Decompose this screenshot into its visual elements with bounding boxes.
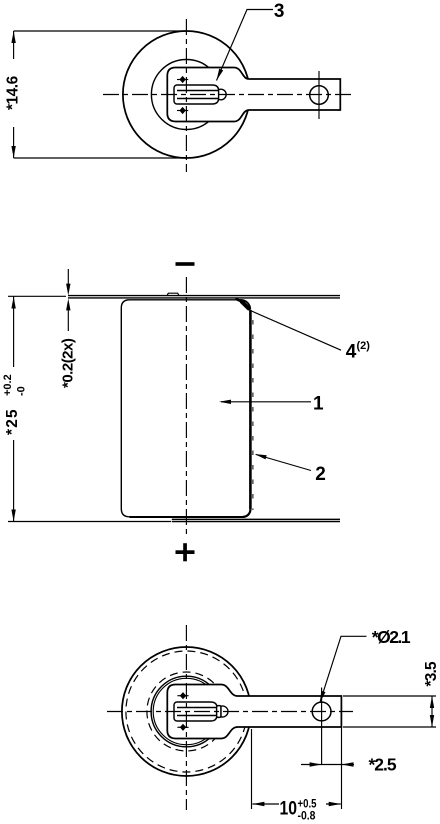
- tab tongue: [177, 91, 220, 99]
- weld nub upper: [177, 692, 188, 699]
- tab slot: [174, 702, 217, 721]
- svg-text:*0.2(2x): *0.2(2x): [60, 338, 77, 388]
- svg-text:*2.5: *2.5: [369, 755, 397, 775]
- top strip weld bump: [167, 293, 179, 295]
- dim 25 text: [2, 374, 28, 435]
- minus terminal: [176, 262, 195, 266]
- leader 1: [221, 401, 311, 403]
- plus terminal: [176, 550, 195, 554]
- top tab strip: [68, 296, 340, 298]
- tab outline (part 3): [167, 68, 340, 122]
- body bottom edge: [130, 516, 244, 518]
- horizontal centerline: [103, 94, 353, 96]
- vertical centerline: [185, 19, 187, 172]
- body outline left/top/bottom-left (part 1): [121, 300, 241, 517]
- sleeve hidden dashed line: [252, 320, 254, 510]
- tab tongue: [177, 708, 217, 716]
- dim 0.2 lower line + arrow: [67, 304, 69, 332]
- weld nub upper: [177, 76, 188, 83]
- svg-text:3: 3: [274, 1, 285, 22]
- tongue tip collar: [217, 706, 221, 718]
- weld nub lower: [177, 724, 188, 731]
- svg-text:*25: *25: [4, 408, 21, 435]
- dim 2.5 line + arrows: [301, 764, 354, 766]
- svg-text:(2): (2): [357, 340, 371, 352]
- svg-text:+0.5: +0.5: [298, 799, 318, 811]
- body right edge (part 2): [249, 310, 252, 509]
- dim 14.6 text: [5, 75, 22, 110]
- dim 14.6 extension lines: [14, 31, 186, 158]
- weld nub lower: [177, 107, 188, 114]
- body bottom-right corner: [243, 509, 250, 517]
- dim 0.2 text: [60, 338, 77, 388]
- ext line strip end: [341, 727, 343, 809]
- leader 4: [252, 311, 342, 350]
- dim 3.5 ext lines: [343, 696, 436, 727]
- outer solid circle: [122, 647, 251, 776]
- svg-text:10: 10: [280, 799, 298, 820]
- svg-text:*3.5: *3.5: [423, 661, 440, 687]
- tab hole: [312, 702, 331, 721]
- leader 2: [256, 455, 311, 471]
- svg-text:-0.8: -0.8: [298, 811, 317, 823]
- dim 25 arrows: [11, 297, 15, 309]
- dim 14.6 dimension line: [13, 31, 15, 158]
- svg-text:*14.6: *14.6: [5, 75, 22, 110]
- hole vertical centerline: [318, 71, 320, 119]
- outer circle (cell outline d14.6): [123, 31, 250, 158]
- vertical centerline: [185, 277, 187, 537]
- ext line circle edge: [251, 729, 253, 809]
- svg-text:1: 1: [313, 394, 324, 415]
- outer dashed circle: [126, 651, 247, 772]
- tab wrap blob top-right corner (part 4): [241, 300, 251, 310]
- dim 3.5 dimension line + arrows: [431, 696, 433, 727]
- tongue tip bead: [219, 89, 227, 100]
- dim 14.6 arrows: [11, 31, 15, 43]
- tab hole: [310, 86, 329, 105]
- tongue tip bead: [221, 706, 228, 717]
- inner solid ring inner: [153, 678, 219, 744]
- dim 3.5 text: [423, 661, 440, 687]
- dim 0.2 upper line + arrow: [67, 269, 69, 291]
- hole vertical centerline / ext: [321, 688, 323, 765]
- vertical centerline: [185, 625, 187, 810]
- svg-text:-0: -0: [16, 386, 28, 396]
- svg-text:+0.2: +0.2: [2, 374, 14, 396]
- horizontal centerline: [107, 711, 353, 713]
- inner solid ring outer: [151, 676, 222, 747]
- svg-text:2: 2: [315, 464, 326, 485]
- extension line bottom: [8, 521, 171, 523]
- inner circle (cell top crimp): [151, 60, 221, 130]
- svg-text:*Ø2.1: *Ø2.1: [372, 627, 411, 647]
- dim 25 dimension line: [13, 297, 15, 522]
- inner dashed circle: [147, 672, 226, 751]
- svg-text:4: 4: [346, 342, 357, 363]
- leader 3: [217, 10, 274, 81]
- leader dia 2.1: [320, 636, 367, 703]
- tab slot: [174, 85, 219, 104]
- dim 10 line + arrows: [252, 803, 340, 805]
- bottom tab strip: [172, 519, 340, 521]
- tab outline: [167, 685, 341, 739]
- extension line top: [8, 295, 66, 297]
